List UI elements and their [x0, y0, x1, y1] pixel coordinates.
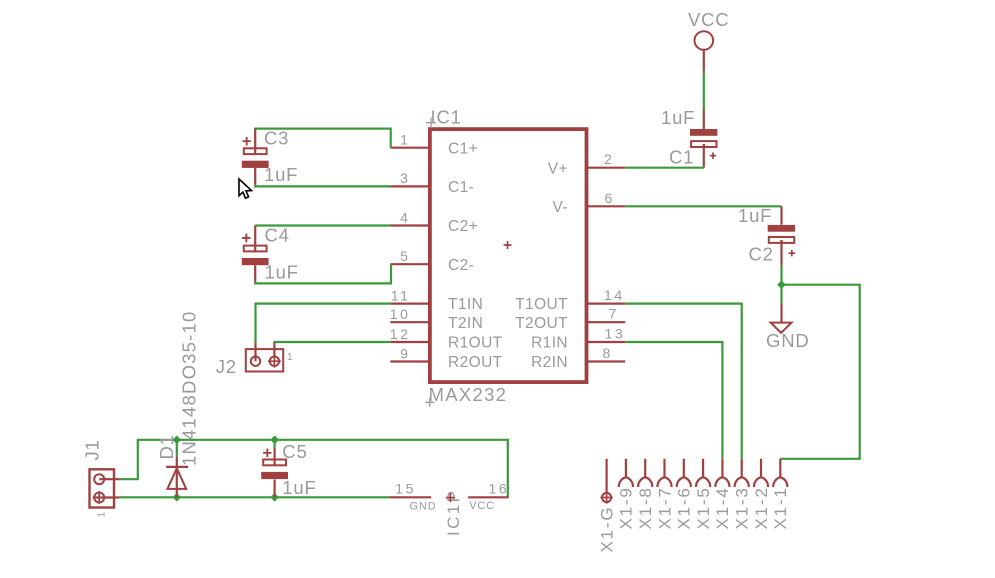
svg-text:8: 8 — [603, 345, 613, 361]
svg-text:T1OUT: T1OUT — [515, 296, 568, 313]
svg-text:6: 6 — [605, 190, 615, 206]
svg-text:1uF: 1uF — [265, 262, 299, 283]
svg-text:X1-5: X1-5 — [694, 486, 713, 529]
svg-text:1uF: 1uF — [738, 205, 772, 226]
svg-text:D1: D1 — [156, 434, 177, 459]
svg-text:1N4148DO35-10: 1N4148DO35-10 — [179, 311, 200, 466]
svg-text:1uF: 1uF — [264, 164, 298, 185]
svg-text:R1OUT: R1OUT — [448, 335, 503, 352]
svg-text:X1-8: X1-8 — [636, 486, 655, 529]
svg-text:C3: C3 — [264, 128, 289, 149]
svg-text:1: 1 — [400, 132, 410, 148]
svg-text:2: 2 — [604, 151, 614, 167]
svg-text:1uF: 1uF — [661, 107, 695, 128]
svg-text:9: 9 — [400, 345, 410, 361]
svg-text:1: 1 — [97, 512, 108, 518]
svg-text:R2OUT: R2OUT — [448, 354, 503, 371]
svg-text:C4: C4 — [265, 225, 290, 246]
svg-text:X1-3: X1-3 — [733, 486, 752, 529]
svg-text:X1-1: X1-1 — [771, 486, 790, 529]
svg-text:1: 1 — [287, 352, 293, 363]
svg-text:C2: C2 — [749, 244, 774, 265]
svg-text:X1-2: X1-2 — [752, 486, 771, 529]
svg-text:V-: V- — [553, 199, 568, 216]
svg-text:J1: J1 — [82, 439, 103, 460]
svg-text:4: 4 — [400, 209, 410, 225]
svg-text:GND: GND — [766, 330, 810, 351]
svg-text:3: 3 — [400, 170, 410, 186]
svg-text:C2+: C2+ — [448, 218, 478, 235]
svg-text:X1-4: X1-4 — [713, 486, 732, 529]
svg-text:X1-G: X1-G — [597, 506, 616, 553]
svg-text:R2IN: R2IN — [531, 354, 568, 371]
svg-text:C1+: C1+ — [448, 140, 478, 157]
svg-text:11: 11 — [391, 287, 411, 303]
svg-text:T2OUT: T2OUT — [515, 315, 568, 332]
svg-text:T1IN: T1IN — [448, 296, 483, 313]
svg-text:R1IN: R1IN — [531, 335, 568, 352]
svg-text:5: 5 — [400, 248, 410, 264]
svg-text:X1-9: X1-9 — [617, 486, 636, 529]
svg-text:C1-: C1- — [448, 179, 474, 196]
svg-text:13: 13 — [605, 326, 626, 342]
svg-text:IC1: IC1 — [431, 107, 462, 128]
svg-text:10: 10 — [390, 306, 411, 322]
svg-text:X1-6: X1-6 — [675, 486, 694, 529]
svg-text:7: 7 — [609, 306, 619, 322]
svg-text:T2IN: T2IN — [448, 315, 483, 332]
svg-text:MAX232: MAX232 — [429, 384, 508, 405]
svg-text:VCC: VCC — [688, 9, 729, 30]
svg-text:12: 12 — [390, 326, 411, 342]
svg-text:C1: C1 — [669, 147, 694, 168]
svg-text:J2: J2 — [216, 356, 237, 377]
svg-text:14: 14 — [604, 287, 625, 303]
svg-text:15: 15 — [395, 481, 416, 497]
svg-text:X1-7: X1-7 — [655, 486, 674, 529]
svg-text:16: 16 — [489, 481, 510, 497]
svg-text:GND: GND — [410, 501, 437, 513]
svg-text:VCC: VCC — [469, 500, 495, 512]
svg-text:V+: V+ — [548, 160, 568, 177]
svg-text:C2-: C2- — [448, 257, 474, 274]
svg-text:IC1P: IC1P — [444, 489, 463, 536]
svg-text:1uF: 1uF — [282, 477, 316, 498]
